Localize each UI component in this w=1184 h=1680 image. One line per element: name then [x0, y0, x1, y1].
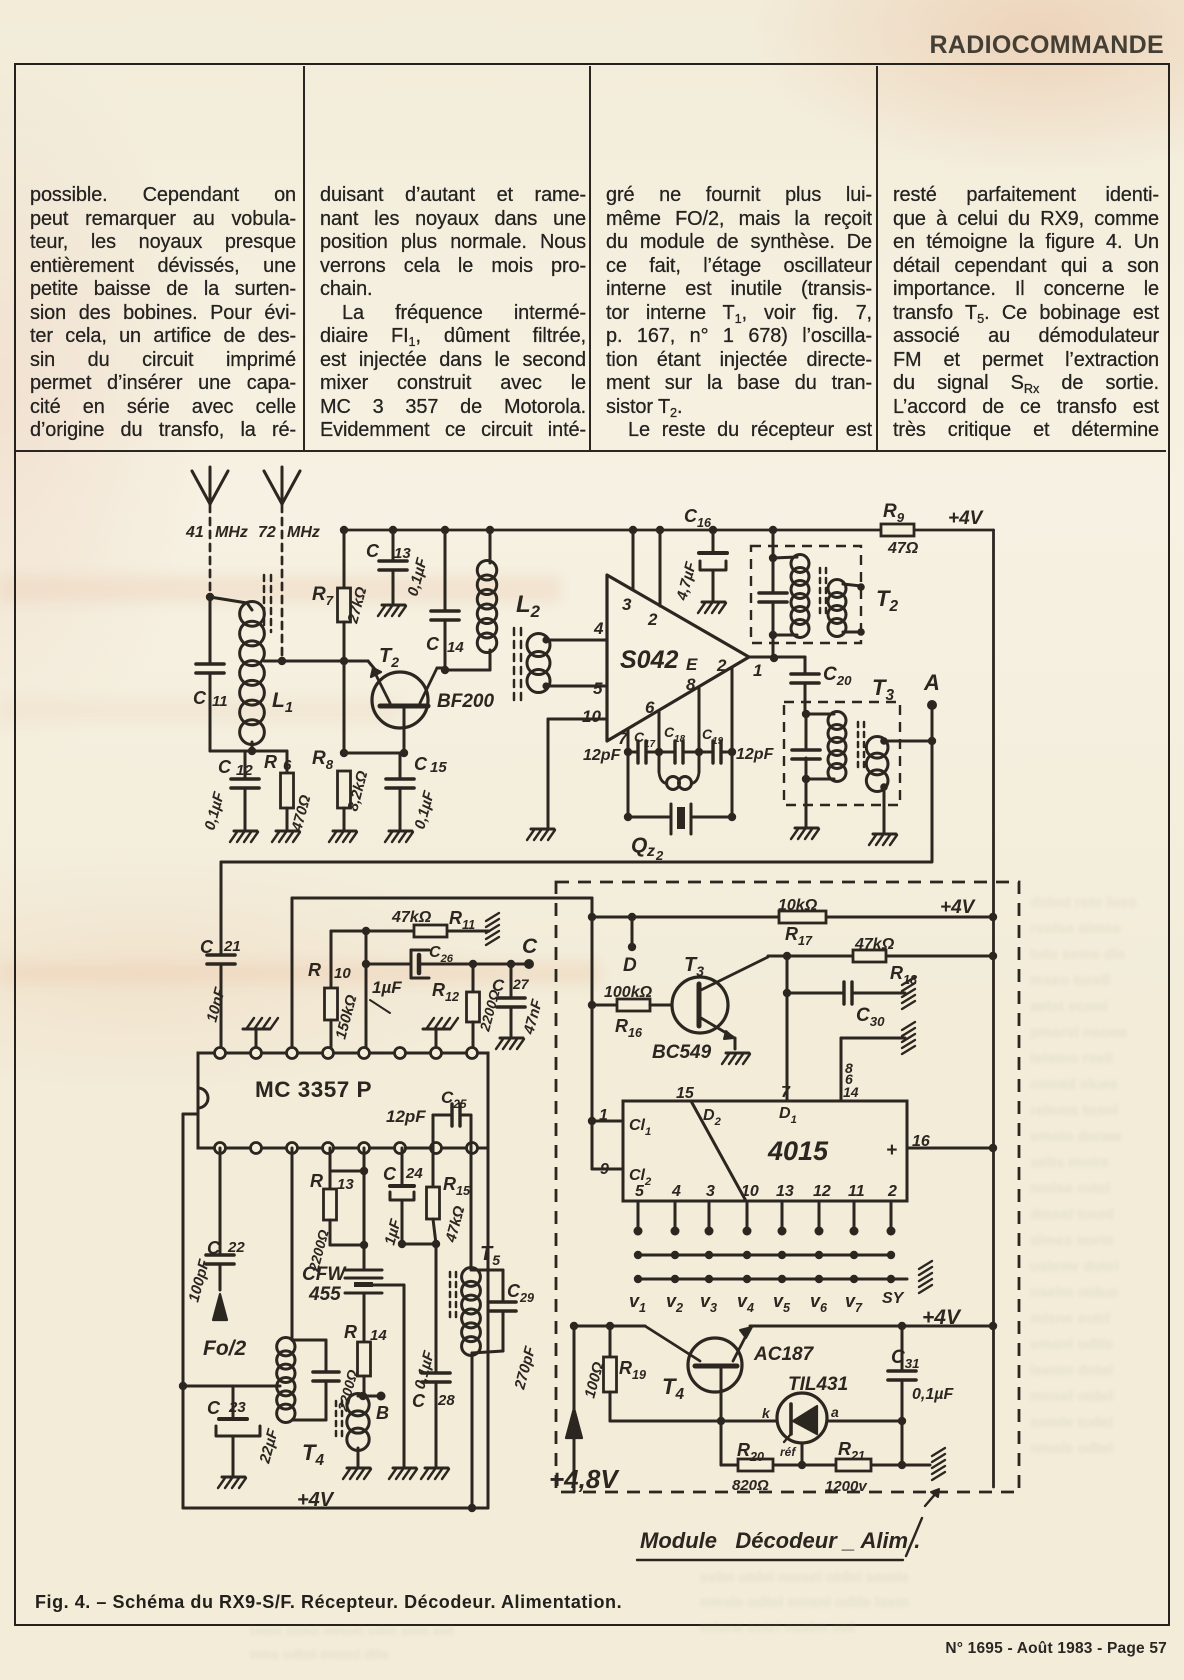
- svg-text:T3: T3: [872, 675, 894, 704]
- svg-text:+4,8V: +4,8V: [549, 1464, 620, 1494]
- svg-text:0,1µF: 0,1µF: [411, 1348, 438, 1391]
- svg-text:BC549: BC549: [652, 1042, 712, 1063]
- ground R8: [329, 831, 357, 842]
- label BF200: [437, 691, 494, 712]
- ic 4015: [623, 1101, 907, 1201]
- label D1: [779, 1105, 797, 1126]
- capacitor C24: [390, 1148, 436, 1248]
- wire R20 R21 row: [721, 1421, 930, 1469]
- capacitor C21: [207, 862, 235, 1053]
- svg-text:12pF: 12pF: [386, 1107, 426, 1126]
- label MC3357P: [255, 1077, 372, 1102]
- label 41 MHz: [185, 524, 248, 541]
- inductor T3 primary: [806, 712, 846, 782]
- transistor T2 BF200: [371, 668, 437, 753]
- svg-text:15: 15: [430, 759, 447, 776]
- wire T4 tank feed: [291, 1148, 294, 1340]
- resistor R9: [881, 524, 914, 536]
- transformer T3 box dashed: [784, 702, 900, 805]
- wire emitter node: [340, 749, 408, 757]
- svg-text:T4: T4: [302, 1440, 324, 1469]
- label Module Decodeur Alim: [637, 1518, 922, 1560]
- value 47Ω: [887, 540, 919, 557]
- arrow Fo/2: [213, 1294, 227, 1320]
- ic MC3357P: [198, 1053, 488, 1148]
- resistor R17: [779, 911, 826, 923]
- resistor R11: [414, 925, 447, 937]
- svg-text:C25: C25: [441, 1088, 467, 1111]
- pin 7: [618, 729, 629, 748]
- svg-text:A: A: [923, 670, 940, 695]
- svg-text:R9: R9: [883, 501, 905, 525]
- label R19: [619, 1358, 646, 1382]
- node D: [628, 917, 636, 951]
- capacitor T2 tank: [759, 593, 787, 602]
- svg-text:3: 3: [706, 1183, 715, 1200]
- ground pin7 MC: [423, 1018, 458, 1053]
- label réf: [780, 1445, 796, 1459]
- svg-text:v5: v5: [773, 1291, 791, 1315]
- capacitor C16: [699, 530, 727, 600]
- label R11: [449, 908, 475, 932]
- svg-text:D: D: [623, 955, 637, 976]
- wire pin1 node: [749, 654, 805, 662]
- label T3 transformer: [872, 675, 894, 704]
- label T4 transistor: [662, 1374, 684, 1403]
- wire a node: [827, 1417, 906, 1425]
- pin 5: [593, 679, 603, 698]
- svg-text:R16: R16: [615, 1016, 643, 1040]
- label +4V decoder: [940, 897, 976, 918]
- svg-text:C: C: [207, 1238, 221, 1258]
- wire pins 8 6 14: [841, 1038, 905, 1101]
- svg-text:T5: T5: [480, 1243, 500, 1268]
- wire antenna2 dashed: [281, 505, 284, 658]
- label C16: [684, 506, 712, 530]
- svg-text:C: C: [412, 1391, 426, 1411]
- inductor T3 secondary: [866, 737, 888, 833]
- value 0,1µF C28: [411, 1348, 438, 1391]
- core T5 dashed: [450, 1272, 456, 1320]
- value 470Ω: [288, 793, 314, 834]
- label C19: [702, 726, 724, 747]
- capacitor C11: [196, 597, 224, 751]
- wire R11 row: [331, 927, 489, 935]
- value 0,1µF C15: [411, 788, 438, 831]
- ground T3 primary: [791, 828, 819, 839]
- label C29: [507, 1281, 534, 1305]
- svg-text:C26: C26: [429, 944, 454, 965]
- wire +4V right vertical: [989, 530, 997, 1487]
- pin 10: [582, 707, 601, 726]
- svg-text:v4: v4: [737, 1291, 754, 1315]
- label +4V bottom: [297, 1489, 335, 1511]
- svg-text:a: a: [831, 1404, 839, 1420]
- label A: [923, 670, 940, 695]
- value 1µF C26: [370, 978, 402, 1013]
- svg-text:10kΩ: 10kΩ: [778, 897, 818, 914]
- label Cl1: [629, 1117, 651, 1138]
- label R13: [310, 1171, 354, 1193]
- wire bottom node L1: [210, 747, 287, 755]
- value 12pF right: [736, 746, 775, 763]
- antenna 72MHz: [264, 467, 300, 504]
- svg-text:T2: T2: [379, 645, 399, 670]
- svg-text:Q: Q: [631, 834, 647, 857]
- value 0,1µF C12: [201, 789, 228, 832]
- svg-text:12pF: 12pF: [583, 747, 622, 764]
- arrow module corner: [925, 1489, 939, 1506]
- capacitor C27: [497, 964, 525, 1036]
- label R18: [890, 963, 917, 987]
- label +4V power: [922, 1306, 962, 1329]
- wire pin5: [546, 685, 607, 688]
- wire k node: [610, 1417, 777, 1425]
- wire 4015 output stubs: [634, 1201, 896, 1236]
- capacitor C18: [675, 741, 683, 763]
- value 100Ω R19: [581, 1360, 607, 1400]
- wire +4V bottom rail: [183, 1148, 488, 1508]
- capacitor C31: [888, 1326, 916, 1465]
- label R10: [308, 960, 351, 982]
- wire bus line 1: [634, 1251, 895, 1259]
- svg-text:R: R: [264, 752, 277, 772]
- node antenna1 junction: [206, 593, 214, 601]
- pins MC3357P top: [215, 1048, 478, 1059]
- svg-text:C: C: [492, 976, 505, 995]
- label R12: [432, 980, 459, 1004]
- svg-text:27: 27: [512, 976, 530, 992]
- svg-text:v1: v1: [629, 1291, 646, 1315]
- svg-text:10: 10: [741, 1183, 759, 1200]
- label 72 MHz: [258, 524, 320, 541]
- svg-text:11: 11: [848, 1183, 865, 1200]
- resistor R20: [738, 1459, 773, 1471]
- wire tap row: [183, 1385, 280, 1388]
- label TIL431: [788, 1374, 848, 1395]
- svg-text:22: 22: [227, 1239, 245, 1256]
- svg-text:28: 28: [437, 1392, 455, 1409]
- wire pin5 MC down: [360, 1148, 368, 1270]
- capacitor C13: [379, 530, 407, 603]
- svg-text:T2: T2: [876, 586, 898, 615]
- value 27kΩ: [344, 585, 370, 626]
- svg-text:R8: R8: [312, 748, 334, 772]
- value 10nF: [203, 985, 229, 1024]
- label C25: [441, 1088, 467, 1111]
- inductor oscillator: [659, 752, 699, 790]
- value 22µF: [256, 1427, 282, 1466]
- wire C26 row: [362, 931, 529, 1053]
- wire collector tank: [445, 669, 490, 672]
- label R6: [264, 752, 292, 774]
- label +4V: [948, 508, 984, 529]
- value 47kΩ R18: [854, 936, 895, 953]
- inductor T2 primary: [773, 555, 809, 638]
- svg-text:S042: S042: [620, 646, 678, 674]
- svg-text:R11: R11: [449, 908, 475, 932]
- label C28: [412, 1391, 455, 1411]
- value 10kΩ: [778, 897, 818, 914]
- ground C27: [496, 1038, 524, 1049]
- svg-text:MHz: MHz: [287, 524, 320, 541]
- svg-text:R19: R19: [619, 1358, 646, 1382]
- svg-text:v2: v2: [666, 1291, 683, 1315]
- label C22: [207, 1238, 245, 1258]
- label C11: [193, 688, 228, 710]
- wire collector T2: [437, 666, 449, 674]
- inductor L2: [477, 530, 497, 670]
- label L1: [272, 689, 293, 716]
- wire pin7 stub: [627, 729, 630, 752]
- svg-text:C: C: [193, 688, 207, 708]
- filter CFW455: [345, 1270, 404, 1466]
- inductor L1: [210, 597, 264, 751]
- pin 15: [676, 1085, 695, 1102]
- svg-text:+4V: +4V: [948, 508, 984, 529]
- ground C15: [385, 831, 413, 842]
- svg-text:C16: C16: [684, 506, 712, 530]
- value 1200v: [825, 1478, 868, 1495]
- decoder module box dashed: [556, 882, 1019, 1492]
- value 8,2kΩ: [344, 769, 371, 813]
- svg-text:12pF: 12pF: [736, 746, 775, 763]
- svg-text:0,1µF: 0,1µF: [912, 1386, 954, 1403]
- label R17: [785, 924, 813, 948]
- pin 2: [647, 610, 658, 629]
- label C node: [522, 935, 538, 958]
- ground C16: [698, 602, 726, 613]
- resistor R19: [604, 1326, 617, 1421]
- node B: [358, 1392, 386, 1401]
- svg-text:C19: C19: [702, 726, 724, 747]
- svg-text:C18: C18: [664, 724, 686, 745]
- capacitor C23: [216, 1386, 260, 1475]
- ground bus: [919, 1261, 932, 1293]
- wire pin16: [907, 1147, 993, 1150]
- svg-text:R17: R17: [785, 924, 813, 948]
- svg-text:41: 41: [185, 524, 204, 541]
- svg-text:47nF: 47nF: [520, 997, 546, 1037]
- label Fo/2: [203, 1337, 246, 1360]
- wire demod out to decoder: [292, 898, 592, 917]
- wire pin3 MC vertical: [291, 898, 294, 1053]
- crystal Qz2: [624, 752, 736, 834]
- svg-text:Fo/2: Fo/2: [203, 1337, 246, 1360]
- resistor R21: [836, 1459, 871, 1471]
- pin 16: [912, 1133, 930, 1150]
- wire 12pF row: [624, 748, 736, 756]
- transformer T5 primary: [462, 1268, 481, 1356]
- svg-text:47Ω: 47Ω: [887, 540, 919, 557]
- svg-text:10: 10: [334, 965, 351, 982]
- label +4,8V: [549, 1464, 620, 1494]
- label T5: [480, 1243, 500, 1268]
- svg-text:1200v: 1200v: [825, 1478, 868, 1495]
- svg-text:2: 2: [887, 1183, 897, 1200]
- value 47kΩ R15: [442, 1204, 468, 1245]
- label R14: [344, 1322, 387, 1344]
- svg-text:100pF: 100pF: [185, 1257, 213, 1304]
- svg-text:C31: C31: [891, 1347, 920, 1371]
- wire R18 node: [768, 952, 993, 960]
- svg-text:23: 23: [228, 1399, 246, 1416]
- wire bottom bus: [221, 861, 932, 864]
- svg-text:5: 5: [635, 1183, 645, 1200]
- capacitor T3 tank: [792, 750, 820, 759]
- core T2 dashed: [820, 568, 826, 618]
- wire pin2 stub: [731, 668, 734, 752]
- value 12pF C25: [386, 1107, 426, 1126]
- wire pin10: [548, 719, 607, 827]
- transformer T2 box dashed: [751, 546, 861, 643]
- wire +4V top rail: [340, 526, 994, 534]
- resistor R16: [592, 999, 672, 1011]
- svg-text:12: 12: [236, 762, 253, 779]
- pin 8: [686, 675, 696, 694]
- transistor T4 AC187: [645, 1326, 752, 1421]
- svg-text:72: 72: [258, 524, 276, 541]
- resistor R7: [338, 530, 351, 753]
- pins MC3357P bottom: [215, 1143, 478, 1154]
- svg-text:réf: réf: [780, 1445, 796, 1459]
- ground T4 secondary: [343, 1468, 371, 1479]
- svg-text:R15: R15: [443, 1174, 471, 1198]
- wire bus line 2: [634, 1275, 907, 1283]
- svg-text:v6: v6: [810, 1291, 828, 1315]
- label C31: [891, 1347, 920, 1371]
- svg-text:BF200: BF200: [437, 691, 494, 712]
- label T3 transistor: [684, 954, 704, 979]
- ground pins 8 6 14: [902, 1022, 915, 1054]
- value 1µF C24: [381, 1217, 404, 1247]
- label 4015: [767, 1136, 829, 1166]
- ground CFW: [389, 1468, 417, 1479]
- inductor T2 secondary: [828, 580, 865, 637]
- wire +4,8V feed arrow: [566, 1326, 582, 1492]
- svg-text:820Ω: 820Ω: [732, 1477, 769, 1494]
- wire T3 feed: [802, 710, 810, 826]
- svg-text:T4: T4: [662, 1374, 684, 1403]
- capacitor T4 tank: [313, 1340, 339, 1420]
- svg-text:R: R: [308, 960, 321, 980]
- resistor R14: [358, 1342, 371, 1396]
- wire pin4: [546, 639, 607, 642]
- core T4 dashed: [336, 1401, 342, 1440]
- value 820Ω: [732, 1477, 769, 1494]
- svg-text:v7: v7: [845, 1291, 863, 1315]
- pin 6: [645, 698, 655, 717]
- resistor R6: [281, 751, 294, 829]
- svg-text:2200Ω: 2200Ω: [334, 1368, 361, 1414]
- svg-text:R: R: [310, 1171, 323, 1191]
- wire pin3 vertical: [632, 530, 635, 590]
- capacitor C17: [638, 741, 646, 763]
- svg-text:C30: C30: [856, 1005, 885, 1029]
- pin 1: [753, 661, 762, 680]
- value 2200Ω R12: [476, 988, 503, 1034]
- svg-text:6: 6: [645, 698, 655, 717]
- capacitor C14: [431, 530, 459, 670]
- label C24: [383, 1164, 423, 1184]
- node antenna2 junction: [278, 657, 286, 665]
- svg-text:24: 24: [405, 1165, 423, 1182]
- pin 3: [622, 595, 632, 614]
- svg-text:+: +: [886, 1140, 897, 1161]
- wire power rail left: [570, 1322, 645, 1330]
- label D: [623, 955, 637, 976]
- svg-text:13: 13: [394, 545, 411, 562]
- svg-text:MHz: MHz: [215, 524, 248, 541]
- label R16: [615, 1016, 643, 1040]
- inductor T4 primary: [277, 1338, 295, 1423]
- svg-text:47kΩ: 47kΩ: [391, 909, 432, 926]
- node C: [524, 959, 534, 969]
- svg-text:14: 14: [843, 1084, 859, 1100]
- svg-text:2: 2: [716, 656, 727, 675]
- svg-text:3: 3: [622, 595, 632, 614]
- label Cl2: [629, 1167, 652, 1188]
- wire ref stub: [798, 1443, 806, 1469]
- svg-text:SY: SY: [882, 1290, 905, 1307]
- svg-text:10nF: 10nF: [203, 985, 229, 1024]
- label C15: [414, 754, 447, 776]
- ground T3 emitter: [722, 1053, 750, 1064]
- node A: [927, 700, 937, 745]
- svg-text:2: 2: [647, 610, 658, 629]
- diode TIL431: [777, 1393, 827, 1443]
- transistor T3 BC549: [672, 957, 768, 1049]
- value 47nF: [520, 997, 546, 1037]
- label S042 E: [620, 646, 698, 674]
- svg-text:4: 4: [671, 1183, 681, 1200]
- svg-text:C: C: [366, 541, 380, 561]
- svg-text:13: 13: [337, 1176, 354, 1193]
- svg-text:14: 14: [370, 1327, 387, 1344]
- svg-text:8: 8: [686, 675, 696, 694]
- resistor R10: [325, 931, 338, 1053]
- label T4 transformer: [302, 1440, 324, 1469]
- svg-text:C: C: [207, 1398, 221, 1418]
- capacitor C15: [386, 753, 414, 829]
- wire T5 to rail: [468, 1353, 476, 1512]
- svg-text:D1: D1: [779, 1105, 797, 1126]
- label C12: [218, 757, 253, 779]
- op-amp U1 S042E triangle: [607, 575, 749, 741]
- resistor R18: [853, 950, 886, 962]
- value 2200Ω R13: [305, 1228, 332, 1274]
- label R9: [883, 501, 905, 525]
- svg-text:C: C: [218, 757, 232, 777]
- svg-text:C: C: [383, 1164, 397, 1184]
- svg-text:6: 6: [283, 757, 292, 774]
- svg-text:47kΩ: 47kΩ: [854, 936, 895, 953]
- pin 7 4015: [781, 1084, 791, 1101]
- svg-text:C: C: [522, 935, 538, 958]
- inductor L2 secondary: [527, 634, 550, 693]
- label plus 4015: [886, 1140, 897, 1161]
- wire pin8 stub: [698, 687, 701, 752]
- svg-text:14: 14: [447, 639, 464, 656]
- label k: [762, 1405, 771, 1421]
- svg-text:v3: v3: [700, 1291, 717, 1315]
- svg-text:455: 455: [308, 1284, 341, 1305]
- label B: [376, 1403, 389, 1423]
- ground R11: [486, 913, 499, 945]
- wire pin2 vertical: [659, 530, 662, 606]
- svg-text:4,7µF: 4,7µF: [673, 559, 700, 603]
- svg-text:TIL431: TIL431: [788, 1374, 848, 1395]
